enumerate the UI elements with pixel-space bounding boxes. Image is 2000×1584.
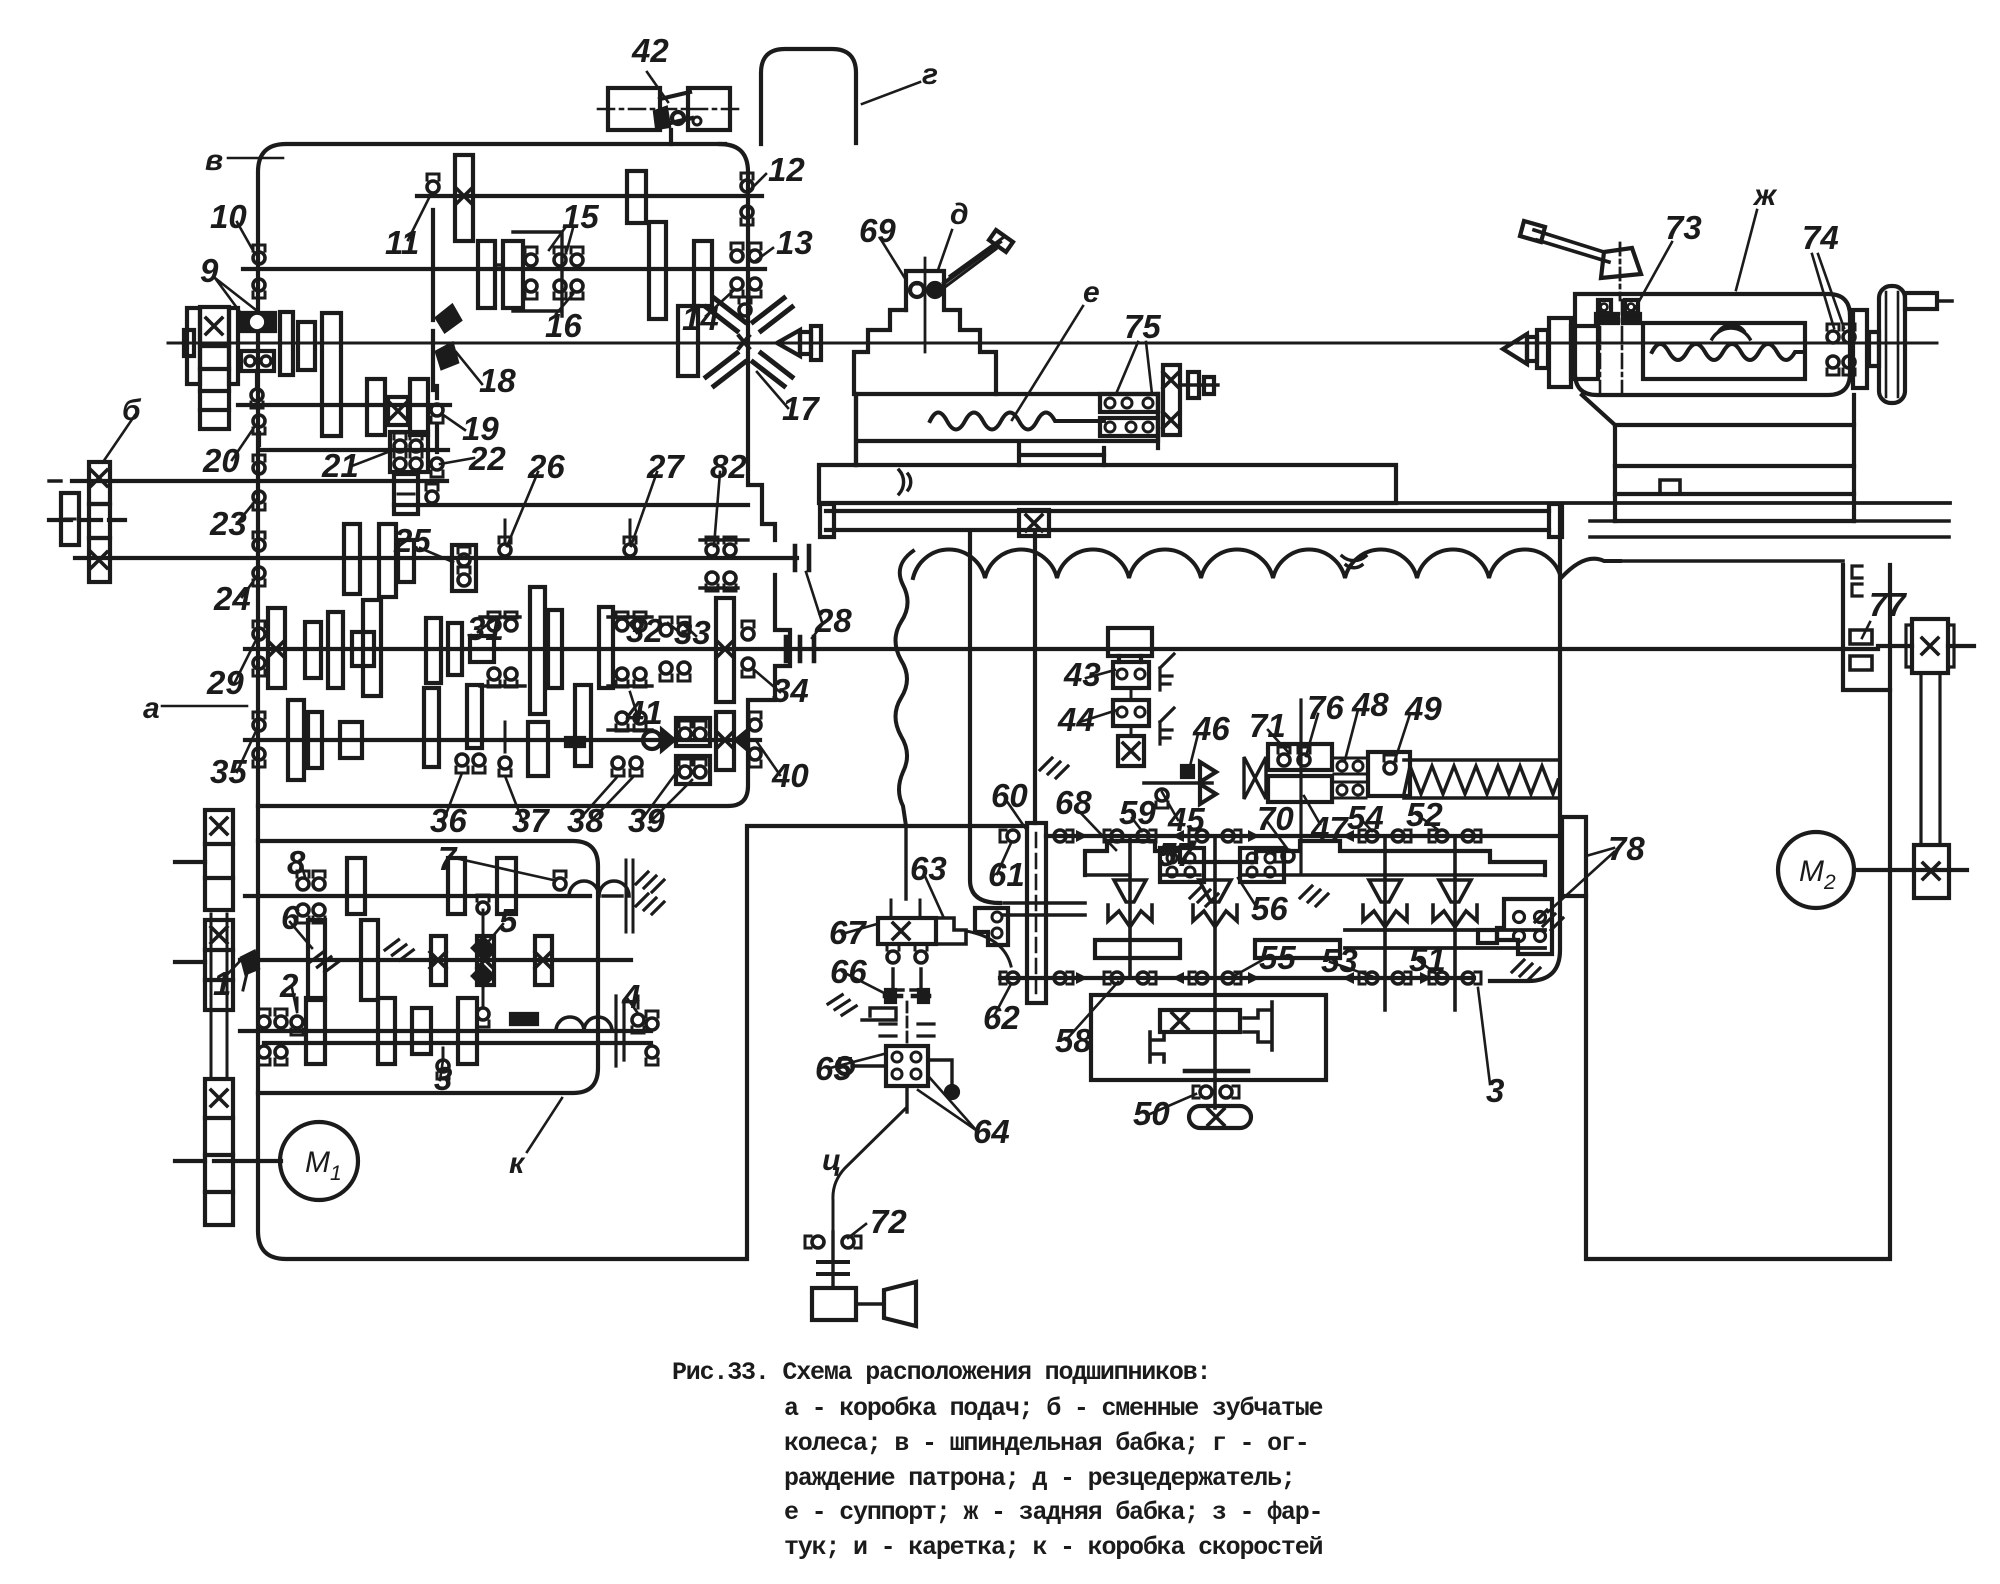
svg-text:к: к — [509, 1147, 526, 1180]
svg-text:тук; и - каретка; к - коробка: тук; и - каретка; к - коробка скоростей — [784, 1533, 1322, 1562]
shaft y=505 — [394, 503, 748, 507]
svg-text:10: 10 — [210, 198, 247, 235]
svg-text:72: 72 — [870, 1203, 907, 1240]
bearing 22 — [431, 425, 443, 477]
handwheel — [1879, 286, 1905, 403]
bearings on top shaft — [1104, 830, 1123, 842]
svg-text:75: 75 — [1124, 308, 1161, 345]
svg-text:48: 48 — [1351, 686, 1389, 723]
top shaft gears — [347, 858, 365, 914]
bearings 38 — [612, 757, 624, 776]
bearing 12 — [741, 173, 753, 192]
svg-text:64: 64 — [973, 1113, 1010, 1150]
svg-text:50: 50 — [1133, 1095, 1170, 1132]
shaft y=481 — [72, 479, 447, 483]
svg-text:71: 71 — [1249, 707, 1286, 744]
chuck guard г — [761, 49, 856, 144]
apron shafts — [1046, 834, 1560, 838]
vertical shaft from carriage — [904, 826, 907, 899]
svg-text:3: 3 — [1486, 1072, 1504, 1109]
apron top plate stepped — [1085, 841, 1545, 875]
pill gear bottom — [1189, 1106, 1251, 1128]
svg-text:46: 46 — [1192, 710, 1230, 747]
svg-text:77: 77 — [1869, 586, 1907, 623]
stem of 11 bearing to spindle — [431, 331, 435, 390]
arrows clutch at 740 — [662, 730, 674, 750]
svg-text:65: 65 — [815, 1050, 852, 1087]
72 bearing — [805, 1236, 824, 1248]
cross slide platform — [854, 394, 858, 465]
bearings 36 37 — [456, 754, 485, 773]
svg-text:4: 4 — [621, 978, 640, 1015]
bearing below 12 — [741, 206, 753, 225]
78 stepped bearing block — [1478, 899, 1552, 980]
svg-text:52: 52 — [1406, 796, 1443, 833]
svg-text:е - суппорт; ж - задняя бабка;: е - суппорт; ж - задняя бабка; з - фар- — [784, 1498, 1322, 1527]
shaft y=405 gears 21 22 — [367, 379, 385, 435]
svg-text:15: 15 — [562, 198, 599, 235]
bearing 20 column — [253, 415, 265, 434]
coupling on feed rod at 28 — [786, 637, 814, 661]
x gear right of 39 — [716, 712, 734, 770]
shaft y=558 — [75, 556, 797, 560]
shaft y=450 — [259, 448, 448, 452]
svg-text:76: 76 — [1307, 689, 1344, 726]
77 bracket plate — [1843, 565, 1890, 690]
svg-text:ц: ц — [822, 1144, 841, 1177]
39 box — [676, 718, 710, 746]
bed top line right — [1396, 501, 1950, 505]
svg-text:73: 73 — [1665, 209, 1702, 246]
svg-text:37: 37 — [512, 802, 550, 839]
svg-text:5: 5 — [499, 902, 518, 939]
svg-text:а: а — [143, 692, 160, 725]
black flag 18b — [437, 344, 457, 368]
svg-text:23: 23 — [209, 505, 247, 542]
bearing 34 — [742, 621, 754, 640]
spindle front bearing 9 (preloaded, solid) — [241, 313, 275, 331]
tailstock base — [1582, 395, 1854, 521]
svg-text:51: 51 — [1409, 941, 1446, 978]
bearing above chuck — [739, 297, 751, 316]
hatch 6 — [384, 938, 415, 962]
svg-text:29: 29 — [206, 664, 244, 701]
hatch for 66 — [826, 992, 858, 1017]
change gear б top — [89, 462, 110, 504]
svg-text:57: 57 — [1158, 836, 1196, 873]
svg-text:7: 7 — [438, 840, 458, 877]
74 bearings — [1827, 324, 1839, 343]
bearing 40 — [749, 712, 761, 731]
center cone — [777, 330, 800, 356]
headstock right edge — [720, 144, 775, 540]
svg-text:б: б — [122, 394, 142, 427]
61 stepped block — [975, 908, 1008, 945]
gear 25 area on shaft y=558 — [344, 524, 360, 594]
spindle collar 2 — [298, 322, 315, 370]
shaft y=405 — [238, 403, 450, 407]
svg-text:8: 8 — [287, 844, 306, 881]
66 clutch — [885, 994, 929, 999]
svg-text:M: M — [305, 1146, 330, 1179]
svg-text:25: 25 — [393, 522, 431, 559]
svg-text:67: 67 — [829, 914, 867, 951]
bearing 50 — [1193, 1086, 1212, 1098]
bearing 4 — [632, 996, 644, 1033]
bearing 62 bottom of 60 — [1000, 972, 1019, 984]
change gear б idler — [61, 493, 79, 545]
svg-text:45: 45 — [1167, 801, 1205, 838]
60 vertical clutch — [1027, 823, 1046, 1003]
centerline b — [49, 518, 125, 522]
svg-text:34: 34 — [772, 672, 809, 709]
lower bars — [1095, 940, 1180, 958]
bearing box 25 — [452, 545, 476, 591]
svg-text:40: 40 — [771, 757, 809, 794]
gear on shaft II left — [455, 155, 473, 241]
gear on shaft II right — [627, 171, 646, 223]
svg-text:12: 12 — [768, 151, 805, 188]
bearing box 21 — [390, 432, 428, 472]
x box on bed — [1019, 510, 1049, 536]
bevel sets — [1108, 880, 1152, 927]
bearings 15 16 cluster — [525, 247, 537, 266]
bearings 26 27 82 on shaft 558 — [499, 520, 511, 556]
57 bearing boxes — [1160, 848, 1284, 882]
worm gear box 50 — [1091, 995, 1326, 1080]
wavy cross screw е — [930, 413, 1104, 430]
svg-text:17: 17 — [782, 390, 820, 427]
bed rails — [826, 511, 1549, 530]
bearing under spindle — [251, 371, 263, 408]
bearing cluster 41 mid — [616, 712, 628, 731]
77 couplings — [1850, 630, 1872, 644]
quill — [1549, 318, 1571, 387]
lower gear of 21 box — [394, 474, 418, 514]
clamp 73 black — [1596, 314, 1640, 323]
bearing 10 — [253, 245, 265, 264]
svg-text:14: 14 — [682, 300, 719, 337]
gear 25 cluster c — [398, 540, 414, 582]
svg-text:56: 56 — [1251, 890, 1288, 927]
svg-text:62: 62 — [983, 999, 1020, 1036]
svg-text:44: 44 — [1057, 701, 1095, 738]
spindle cone gear stack — [187, 307, 238, 429]
svg-text:69: 69 — [859, 212, 896, 249]
spindle nose left journal — [184, 330, 194, 356]
change gear б middle — [89, 504, 110, 538]
svg-text:58: 58 — [1055, 1022, 1092, 1059]
black flag 1 — [242, 952, 258, 973]
oil gun — [812, 1288, 856, 1320]
svg-text:59: 59 — [1119, 794, 1156, 831]
bearings 13 14 right — [731, 243, 743, 262]
svg-text:13: 13 — [776, 224, 813, 261]
bearing 7 — [554, 871, 566, 890]
svg-text:колеса; в - шпиндельная бабка;: колеса; в - шпиндельная бабка; г - ог- — [784, 1429, 1309, 1458]
svg-text:32: 32 — [626, 612, 663, 649]
svg-text:60: 60 — [991, 777, 1028, 814]
75 bearing column — [1163, 365, 1180, 435]
)) marks — [899, 470, 911, 494]
svg-text:2: 2 — [1823, 871, 1836, 894]
svg-text:39: 39 — [628, 802, 665, 839]
svg-text:Рис.33. Схема расположения под: Рис.33. Схема расположения подшипников: — [672, 1358, 1210, 1387]
wavy vertical left of apron — [896, 551, 914, 826]
svg-text:66: 66 — [830, 953, 867, 990]
71 76 48 49 cluster — [1244, 744, 1410, 802]
43 44 half nut stack — [1108, 628, 1174, 766]
svg-text:26: 26 — [527, 448, 565, 485]
svg-text:20: 20 — [202, 442, 240, 479]
cone center — [1503, 334, 1527, 364]
black flag 18a — [437, 306, 460, 331]
spring clutch 4 — [556, 1017, 612, 1031]
C marks above 77 — [1852, 566, 1862, 596]
svg-text:а - коробка подач; б - сменные: а - коробка подач; б - сменные зубчатые — [784, 1394, 1322, 1423]
spring 49 — [1404, 766, 1558, 794]
svg-text:38: 38 — [567, 802, 604, 839]
spindle center line — [168, 342, 1937, 345]
coupling 28 top — [795, 546, 809, 570]
wavy skirt of carriage — [913, 550, 1620, 578]
svg-text:55: 55 — [1259, 939, 1296, 976]
shaft III y=269 — [243, 267, 765, 271]
bearing 19 — [431, 386, 443, 423]
svg-text:63: 63 — [910, 850, 947, 887]
saddle step down right — [1104, 394, 1158, 465]
shaft arrowheads — [1076, 830, 1088, 842]
shaft y=740 — [245, 738, 760, 742]
svg-text:1: 1 — [213, 965, 231, 1002]
link arc 63 to 60 — [966, 931, 1011, 966]
svg-text:27: 27 — [646, 448, 685, 485]
bearings left pair lower shaft — [258, 1009, 270, 1028]
element 42 chuck brake — [598, 88, 740, 130]
svg-text:е: е — [1083, 276, 1100, 309]
bearings 32 — [616, 612, 628, 631]
65 block — [837, 1002, 958, 1112]
svg-text:74: 74 — [1802, 219, 1839, 256]
svg-text:3: 3 — [434, 1060, 452, 1097]
quill end plate — [1853, 310, 1867, 388]
feed box right edge lower — [258, 575, 790, 806]
saddle / carriage platform — [819, 465, 1396, 503]
svg-text:21: 21 — [321, 447, 359, 484]
feed shaft gear cluster — [305, 622, 321, 678]
cross screw handle — [1180, 372, 1218, 398]
svg-text:82: 82 — [710, 448, 747, 485]
gear on feed rod left — [268, 608, 285, 688]
svg-text:53: 53 — [1321, 942, 1358, 979]
б shaft stubs — [49, 479, 122, 482]
spindle gear big — [322, 313, 341, 436]
middle shaft gears — [308, 920, 325, 1000]
left belt pulley column — [175, 810, 233, 1225]
guard 42 stem — [669, 130, 673, 144]
45 46 bevel — [1144, 762, 1216, 808]
svg-text:24: 24 — [213, 580, 251, 617]
gear 25 cluster b — [379, 524, 396, 597]
bearing on shaft 505 — [426, 484, 438, 503]
svg-text:9: 9 — [200, 252, 219, 289]
svg-text:ж: ж — [1752, 179, 1778, 212]
svg-text:68: 68 — [1055, 784, 1092, 821]
70 vertical shaft — [1299, 700, 1302, 872]
svg-text:в: в — [205, 144, 223, 177]
svg-text:22: 22 — [468, 440, 506, 477]
svg-text:1: 1 — [330, 1162, 342, 1185]
bearings 33 — [660, 617, 672, 636]
cross slide platform — [856, 394, 1158, 465]
spindle collar — [280, 312, 293, 375]
svg-text:36: 36 — [430, 802, 467, 839]
shaft III gears — [478, 241, 495, 308]
bearing 3 — [437, 1048, 449, 1079]
75 bearing strips — [1100, 394, 1158, 436]
diamonds 5 — [473, 938, 493, 958]
svg-text:11: 11 — [385, 224, 419, 261]
svg-text:18: 18 — [479, 362, 516, 399]
tailstock screw wavy — [1652, 344, 1802, 360]
svg-text:35: 35 — [210, 753, 247, 790]
lower shaft gears — [306, 998, 325, 1064]
bearings 31 — [488, 612, 500, 631]
tailstock body — [1503, 221, 1952, 521]
shaft II y=196 — [417, 194, 762, 198]
lower feed shaft y=740 gears — [288, 700, 304, 780]
svg-text:раждение патрона; д - резцедер: раждение патрона; д - резцедержатель; — [784, 1464, 1295, 1493]
spring clutch 7 — [569, 881, 629, 896]
svg-text:54: 54 — [1347, 799, 1384, 836]
78 tall rect — [1562, 817, 1586, 896]
speed box shafts — [245, 894, 590, 898]
vertical shafts in apron — [1130, 836, 1455, 1108]
ц curve — [833, 1108, 906, 1232]
bearings on lower shaft — [1104, 972, 1123, 984]
change gear б bottom — [89, 538, 110, 582]
svg-text:16: 16 — [545, 307, 582, 344]
svg-text:70: 70 — [1257, 800, 1294, 837]
feed rod y=649 — [245, 647, 1878, 651]
svg-text:41: 41 — [625, 694, 663, 731]
bearing 2 — [291, 998, 303, 1035]
svg-text:2: 2 — [279, 967, 299, 1004]
svg-text:28: 28 — [814, 602, 852, 639]
svg-text:33: 33 — [674, 614, 711, 651]
tool post tower — [854, 258, 996, 394]
svg-text:д: д — [950, 198, 969, 231]
bottom right cabinet з outline — [1586, 690, 1890, 1259]
bed lower lines right — [1590, 521, 1949, 561]
motor M1 — [280, 1122, 358, 1200]
svg-text:43: 43 — [1063, 656, 1101, 693]
M1 shaft — [214, 1159, 281, 1163]
apron right edge vertical — [1490, 508, 1560, 981]
lever stem — [1619, 243, 1622, 300]
svg-text:M: M — [1799, 855, 1824, 888]
bearing 11 — [427, 174, 439, 320]
svg-text:47: 47 — [1310, 810, 1349, 847]
spindle lower bearing box — [241, 351, 274, 371]
67 gear bar — [878, 918, 966, 944]
svg-text:61: 61 — [988, 856, 1025, 893]
gear on spindle right — [678, 306, 698, 376]
motor M2 — [1778, 832, 1854, 908]
apron left edge — [970, 532, 1000, 903]
svg-text:6: 6 — [281, 899, 300, 936]
svg-text:78: 78 — [1608, 830, 1645, 867]
headstock box в outline — [258, 144, 1027, 1259]
svg-text:г: г — [922, 58, 938, 91]
bearing 8 pair — [297, 871, 309, 890]
speed box к outline — [258, 841, 598, 1093]
chuck cross X (clutch 17) — [706, 298, 792, 386]
belt pulleys right — [1878, 619, 1974, 898]
ground hatches apron — [1190, 886, 1218, 906]
svg-text:42: 42 — [631, 32, 669, 69]
svg-text:31: 31 — [467, 610, 504, 647]
svg-text:49: 49 — [1404, 690, 1442, 727]
tool post handle — [941, 230, 1013, 290]
